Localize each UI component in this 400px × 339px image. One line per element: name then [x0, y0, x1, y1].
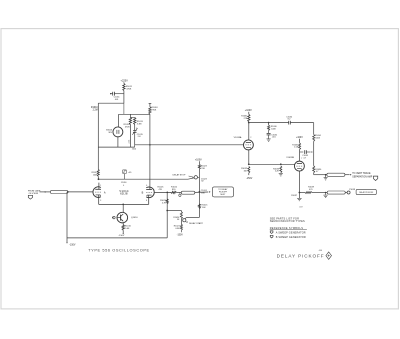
note reference B [270, 235, 273, 238]
ground [279, 173, 283, 175]
resistor R1033 [280, 166, 282, 173]
junction [166, 192, 168, 194]
svg-text:R1037: R1037 [291, 195, 297, 197]
wire [98, 102, 124, 104]
wire [180, 219, 182, 224]
wire [186, 216, 199, 218]
wire [119, 113, 150, 115]
resistor R1032 [248, 166, 250, 173]
capacitor C1034 [288, 121, 290, 125]
capacitor C1032 [268, 130, 270, 133]
svg-text:V1033A: V1033A [234, 136, 242, 139]
note reference A [270, 231, 273, 234]
svg-text:+100V: +100V [195, 159, 202, 161]
neon bulb B1016 [113, 127, 123, 137]
wire [248, 150, 250, 165]
triode V1033B [294, 161, 304, 171]
wire [313, 123, 315, 135]
svg-text:-150V: -150V [69, 244, 76, 246]
svg-text:27K: 27K [244, 118, 248, 120]
svg-text:6DJ8: 6DJ8 [120, 192, 128, 196]
junction [199, 191, 201, 193]
resistor R1039 [305, 192, 312, 194]
wire [99, 178, 189, 180]
wire [98, 195, 100, 205]
wire [149, 103, 152, 105]
junction [98, 178, 100, 180]
output box [213, 187, 234, 197]
resistor R1015 [134, 117, 136, 124]
wire [66, 192, 68, 242]
wire [149, 187, 151, 189]
svg-text:REFERENCE SYMBOLS: REFERENCE SYMBOLS [270, 226, 304, 230]
ground [325, 175, 327, 178]
svg-text:6.8K: 6.8K [175, 228, 180, 230]
capacitor C1035 [300, 151, 304, 153]
ground [268, 135, 270, 139]
wire [314, 174, 327, 176]
triode V1033A [243, 140, 253, 150]
resistor R1012 line box [51, 190, 68, 193]
node terminal P1038 [347, 191, 350, 194]
svg-text:DELAY PICKOFF: DELAY PICKOFF [277, 253, 325, 258]
svg-text:DELAY PICKOFF: DELAY PICKOFF [359, 191, 374, 194]
wire [195, 191, 209, 193]
delay line box [327, 191, 345, 194]
svg-text:MULT: MULT [220, 194, 226, 196]
svg-text:1037: 1037 [299, 206, 303, 208]
junction [325, 174, 327, 176]
svg-text:4.7K: 4.7K [162, 202, 167, 204]
resistor R1018 [149, 107, 151, 114]
junction [325, 192, 327, 194]
wire [149, 114, 151, 187]
resistor R1034 [313, 134, 315, 141]
triode V1014B [146, 187, 154, 198]
svg-text:+225V: +225V [121, 79, 129, 82]
wire [249, 163, 295, 165]
svg-text:2.2K: 2.2K [275, 171, 280, 173]
svg-text:Q1016: Q1016 [131, 217, 138, 219]
resistor R1013 [97, 169, 99, 176]
wire [313, 141, 315, 166]
svg-text:R1010: R1010 [91, 107, 98, 109]
svg-text:TO VERT TRACE: TO VERT TRACE [352, 172, 371, 175]
output box [356, 189, 376, 194]
node -150V [180, 230, 182, 232]
svg-text:470K: 470K [126, 89, 131, 91]
wire [188, 178, 194, 179]
svg-text:470K: 470K [125, 126, 130, 128]
ground [325, 193, 327, 195]
wire [166, 192, 168, 238]
node -150V [66, 242, 68, 243]
resistor R1022 inline [171, 191, 176, 193]
node -150V [122, 233, 123, 234]
svg-text:A SWEEP GENERATOR: A SWEEP GENERATOR [276, 232, 306, 235]
resistor R1025 [198, 204, 200, 209]
svg-text:+100V: +100V [296, 137, 303, 139]
svg-text:-150V: -150V [246, 178, 253, 180]
svg-text:270K: 270K [152, 110, 157, 112]
node terminal [179, 192, 181, 194]
node TP tick [123, 174, 125, 179]
ground [297, 197, 302, 199]
resistor R1016 [122, 225, 124, 231]
wire [129, 114, 131, 117]
junction [248, 122, 250, 124]
wire [134, 132, 136, 144]
node source symbol [28, 195, 32, 199]
svg-text:2.2M: 2.2M [93, 110, 98, 112]
junction [122, 204, 124, 206]
wire [123, 91, 125, 104]
svg-text:8: 8 [146, 200, 147, 202]
wire [122, 230, 124, 233]
svg-text:+100V: +100V [245, 109, 252, 112]
wire [134, 124, 136, 130]
wire [40, 191, 51, 193]
wire [98, 146, 134, 148]
wire [117, 137, 119, 147]
svg-text:100K: 100K [315, 138, 320, 140]
wire [312, 192, 327, 194]
svg-text:100K: 100K [271, 129, 276, 131]
wire arrowhead [45, 191, 47, 193]
wire [98, 183, 100, 190]
wire [67, 237, 167, 239]
node DELAY START [186, 221, 187, 222]
svg-text:2: 2 [250, 137, 251, 139]
svg-text:1: 1 [100, 185, 101, 187]
wire arrowhead [209, 191, 211, 193]
svg-text:90V: 90V [109, 132, 113, 134]
wire [248, 122, 250, 140]
wire [180, 211, 182, 212]
svg-text:B SWEEP GENERATOR: B SWEEP GENERATOR [276, 236, 306, 239]
svg-text:R1011: R1011 [126, 86, 133, 88]
wire [268, 123, 270, 126]
wire [148, 195, 150, 205]
junction [248, 163, 250, 165]
wire [99, 203, 149, 205]
junction [268, 122, 270, 124]
junction [149, 144, 151, 146]
wire [313, 173, 315, 175]
svg-text:100K: 100K [93, 175, 98, 177]
wire [176, 191, 181, 193]
resistor R1031 [248, 114, 250, 121]
svg-text:3.3M: 3.3M [137, 124, 142, 126]
resistor R1030 [268, 125, 270, 130]
delay line DL1020 [181, 191, 195, 194]
junction [299, 192, 301, 194]
capacitor C1011 [111, 93, 113, 95]
wire [129, 124, 131, 147]
wire [130, 116, 134, 118]
wire [97, 103, 99, 169]
transistor Q1016 [117, 212, 128, 223]
wire [135, 144, 244, 146]
svg-text:V1033B: V1033B [286, 157, 294, 159]
wire [122, 204, 124, 212]
delay line box [327, 173, 345, 176]
wire [167, 210, 181, 212]
resistor R1011 [123, 83, 125, 90]
svg-text:3: 3 [100, 200, 101, 202]
svg-text:SEPARATION AMP: SEPARATION AMP [352, 175, 372, 178]
node base terminal [113, 216, 116, 219]
wire [298, 171, 300, 198]
capacitor C1015 [133, 130, 137, 132]
wire [198, 169, 200, 217]
resistor R1014 [129, 117, 131, 124]
wire [118, 114, 120, 127]
wire [123, 103, 125, 114]
potentiometer R1026 wiper [185, 217, 186, 218]
svg-text:C1016: C1016 [121, 182, 127, 184]
resistor R1035 [299, 143, 301, 150]
junction [67, 191, 69, 193]
resistor R1026 [180, 212, 182, 219]
wire [249, 122, 289, 124]
svg-text:5.6K: 5.6K [125, 228, 130, 230]
wire [248, 173, 250, 175]
wire [299, 192, 305, 194]
svg-text:+0.5: +0.5 [129, 140, 131, 144]
svg-text:1.5K: 1.5K [294, 147, 299, 149]
svg-text:SEMICONDUCTOR TYPES: SEMICONDUCTOR TYPES [270, 219, 305, 223]
svg-text:P1038: P1038 [349, 189, 356, 191]
node label [129, 140, 131, 144]
wire [248, 112, 250, 115]
node diamond symbol [326, 252, 332, 260]
wire [154, 191, 171, 193]
resistor R1024 [166, 199, 168, 204]
junction [280, 163, 282, 165]
svg-text:1014: 1014 [132, 149, 136, 151]
wire [149, 104, 151, 107]
svg-text:DELAY STOP: DELAY STOP [173, 174, 186, 177]
wire [123, 82, 125, 83]
wire [299, 150, 301, 162]
node reference symbol [373, 176, 377, 180]
triode V1014A [93, 187, 101, 198]
svg-text:DELAY START: DELAY START [189, 222, 204, 225]
test point TP1023 [194, 176, 197, 179]
wire [299, 139, 301, 143]
wire [97, 176, 99, 179]
wire arrowhead [345, 174, 350, 176]
junction [166, 210, 168, 212]
wire [122, 223, 124, 225]
wire [198, 161, 200, 164]
wire [290, 122, 313, 124]
resistor R1023 [198, 164, 200, 169]
svg-text:-150V: -150V [177, 234, 184, 236]
svg-text:7: 7 [301, 158, 302, 160]
svg-text:-150V: -150V [119, 235, 125, 237]
svg-text:4: 4 [123, 185, 124, 187]
svg-text:TYPE 556 OSCILLOSCOPE: TYPE 556 OSCILLOSCOPE [88, 247, 149, 252]
wire [134, 145, 136, 147]
svg-text:OF V1033: OF V1033 [29, 193, 39, 195]
resistor R1036 [313, 166, 315, 173]
resistor R1027 [180, 224, 182, 230]
svg-text:6: 6 [146, 185, 147, 187]
